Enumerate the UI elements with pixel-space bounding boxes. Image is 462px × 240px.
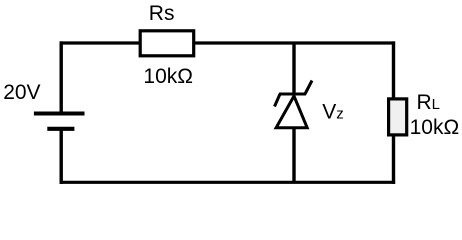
wire zener branch upper [292,43,295,94]
battery V1 long plate [34,111,85,115]
battery V1 short plate [47,127,74,131]
resistor Rs [140,31,194,56]
svg-text:Rs: Rs [149,2,175,25]
wire right vertical lower [392,134,395,184]
zener triangle [276,96,307,128]
wire top rail [60,41,396,44]
zener left wing [275,94,281,107]
zener right wing [305,81,312,95]
svg-text:10kΩ: 10kΩ [410,116,460,139]
wire bottom rail [60,181,396,184]
svg-text:10kΩ: 10kΩ [143,65,193,88]
wire zener branch lower [292,127,295,182]
zener diode Vz [275,81,313,128]
zener cathode bar [279,93,306,96]
svg-text:20V: 20V [3,81,40,104]
wire right vertical upper [392,41,395,100]
wire left vertical lower [60,129,63,184]
resistor RL [389,99,407,135]
wire left vertical upper [60,41,63,112]
